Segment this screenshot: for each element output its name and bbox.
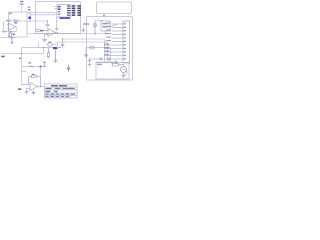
IC pin name text left column — [58, 6, 61, 15]
wire drop x21.5 — [21, 48, 23, 54]
OSC text — [102, 23, 107, 27]
wire R9 to circle — [119, 65, 124, 67]
wire diagonal to pin1 — [110, 24, 117, 27]
IC pin numbers column — [72, 5, 75, 16]
label tick mid — [58, 47, 60, 48]
diode D2 stub — [41, 63, 47, 67]
resistor R10 feedback — [32, 75, 37, 78]
diode D1 vertical — [67, 65, 70, 72]
wire to speaker — [111, 62, 114, 64]
crystal X1 — [94, 21, 97, 34]
label net small — [28, 9, 30, 10]
connector labels — [105, 23, 111, 56]
wire corner — [38, 42, 40, 48]
capacitor C2 — [46, 24, 50, 25]
resistor R2 — [13, 20, 18, 22]
title row2 text a — [46, 88, 52, 89]
junction — [107, 48, 108, 49]
resistor R5 — [37, 29, 41, 31]
label D2 — [43, 62, 46, 63]
wire bus y53.5 — [1, 53, 44, 55]
wire gnd drop — [44, 34, 46, 39]
wire to IC pin row2 — [30, 14, 57, 16]
wire cap top — [47, 21, 49, 24]
resistor R4 vertical — [10, 32, 12, 37]
bottom box label — [97, 64, 102, 65]
wire OSC down — [105, 31, 107, 34]
title row2 text b — [55, 88, 60, 89]
label box B corner — [9, 13, 11, 14]
resistor R1 — [6, 20, 11, 22]
resistor R6 — [90, 47, 94, 49]
speaker hook arrow — [126, 71, 127, 75]
wire to IC pin row1 — [27, 12, 57, 14]
connector pin wires — [90, 24, 124, 62]
wire vertical x21.5 long — [21, 54, 23, 85]
junction — [43, 47, 44, 48]
junction — [110, 51, 111, 52]
wire R7 leads — [46, 44, 48, 46]
stub branch b — [22, 71, 27, 73]
wire vertical x40.5 — [40, 67, 42, 77]
label U1 — [14, 22, 17, 23]
title text — [51, 85, 58, 86]
wire feedback right down — [40, 77, 42, 87]
capacitor C3 vertical — [61, 39, 65, 49]
wire IC vss down — [56, 17, 58, 28]
wire cap to opamp — [47, 26, 49, 29]
connector pin numbers — [124, 23, 126, 59]
connector J1 body — [123, 21, 130, 63]
wire long top to cap C2 — [6, 20, 48, 22]
stub branch a — [22, 66, 27, 68]
junction — [10, 31, 11, 32]
resistor R9 — [113, 63, 119, 66]
ground U4 — [32, 91, 36, 95]
IC U3 — [57, 5, 71, 18]
wire bus y48 — [22, 47, 55, 49]
IC pins left — [55, 6, 58, 8]
box OSC module — [101, 21, 110, 31]
resistor R8 vertical — [47, 48, 49, 59]
wire y48 right — [86, 47, 111, 49]
junction — [105, 33, 106, 34]
ground input — [25, 92, 29, 94]
label R4 — [13, 34, 15, 35]
IC pin name text right column — [67, 5, 70, 15]
title row4 cells — [45, 94, 75, 95]
junction — [18, 20, 19, 21]
op-amp U4 — [22, 83, 44, 91]
wire bus y42 — [58, 41, 108, 43]
title block frame — [45, 84, 78, 98]
junction C3 top — [62, 38, 63, 39]
wire corner gnd — [85, 48, 87, 55]
box top main section — [36, 2, 81, 34]
wire feedback right — [37, 76, 41, 78]
title row5 cells — [45, 96, 69, 97]
wire minus input down — [26, 89, 28, 92]
junction — [104, 47, 105, 48]
wire junction drop — [43, 48, 45, 54]
label tick — [19, 58, 21, 59]
junction — [104, 44, 105, 45]
IC value label blue — [60, 17, 71, 19]
ground mid — [54, 50, 58, 63]
wire opamp out long — [27, 33, 108, 35]
wire feedback left — [29, 76, 32, 78]
junction cap top — [47, 20, 48, 21]
capacitor C1 — [20, 3, 24, 12]
wire mid — [7, 31, 16, 33]
op-amp U2 — [41, 29, 58, 37]
title row3 text b — [55, 91, 58, 92]
box right connector section — [87, 17, 133, 81]
junction x30 wire21 — [29, 20, 30, 21]
box top right annotation — [97, 2, 132, 14]
label REF — [18, 88, 21, 90]
label GND left — [1, 56, 5, 58]
box bottom right section — [96, 63, 129, 80]
wire vertical drop b — [107, 42, 109, 63]
capacitor C5 on wire — [108, 57, 109, 60]
label 5V — [28, 7, 31, 8]
ground small — [81, 28, 85, 32]
label R10 — [32, 74, 35, 75]
ground — [42, 39, 47, 41]
junction output — [40, 86, 41, 87]
net label blue x57 — [55, 47, 58, 49]
IC pins right — [71, 6, 73, 15]
label R11 — [28, 62, 31, 63]
box left analog section — [9, 12, 28, 37]
IC net labels column — [77, 5, 81, 16]
capacitor C5b on wire — [100, 57, 101, 60]
label C1 — [20, 1, 23, 2]
wire feedback left down — [28, 77, 30, 85]
arrow symbol probe — [11, 39, 14, 44]
net label blue mid — [53, 47, 56, 49]
title text b — [59, 85, 67, 86]
junction dark — [40, 66, 42, 68]
speaker mark — [122, 69, 124, 71]
wire vertical left x3.5 — [3, 21, 5, 30]
component small box R7 — [48, 43, 52, 46]
resistor R11 — [27, 66, 41, 68]
ground IC vss — [55, 28, 58, 30]
wire crystal to osc — [95, 20, 103, 23]
title row2 text c — [63, 88, 75, 89]
junction — [94, 33, 95, 34]
op-amp U1 — [7, 23, 16, 30]
wire bottom of box — [1, 37, 16, 39]
wire vertical x57 — [57, 42, 59, 47]
power flag cross — [103, 14, 105, 16]
wire speaker down — [123, 72, 125, 75]
ground speaker — [121, 75, 126, 77]
label osc out — [107, 26, 110, 27]
wire U1 out down — [15, 27, 17, 32]
label R7 — [48, 42, 51, 43]
title row3 text — [46, 91, 51, 92]
junction — [21, 53, 22, 54]
net label blue — [28, 17, 31, 19]
wire vertical drop c — [110, 48, 112, 63]
speaker LS1 circle — [121, 67, 127, 73]
capacitor C4 stack — [88, 58, 92, 67]
wire bus y39 — [62, 38, 105, 40]
connector pin arrows — [119, 23, 121, 56]
capacitor C6 on wire — [116, 61, 117, 64]
label U2 — [40, 30, 43, 31]
wire vertical drop a — [104, 39, 106, 63]
wire R7 right — [52, 42, 56, 44]
ground — [84, 55, 89, 57]
resistor R3 — [2, 31, 7, 33]
wire node vertical x30 — [29, 9, 31, 22]
label 4MHz — [83, 23, 89, 24]
